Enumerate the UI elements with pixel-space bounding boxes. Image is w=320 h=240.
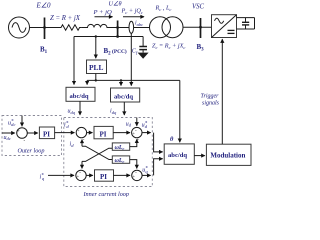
wire i_dq bbox=[123, 102, 125, 115]
svg-text:Rc , Lc: Rc , Lc bbox=[155, 4, 172, 11]
wire S2 to PI2 bbox=[87, 132, 93, 134]
wire PLL input bbox=[95, 37, 97, 59]
svg-text:Z = R + jX: Z = R + jX bbox=[50, 15, 81, 22]
current sensor i_abc bbox=[129, 21, 134, 33]
wire u_d into S3 bbox=[136, 118, 138, 126]
abc/dq U3 bbox=[66, 87, 95, 101]
summing node S4 bbox=[76, 170, 86, 180]
svg-text:signals: signals bbox=[202, 101, 220, 107]
svg-text:Cf: Cf bbox=[132, 48, 138, 54]
svg-text:P + jQ: P + jQ bbox=[93, 9, 112, 16]
bus B1 bbox=[43, 18, 46, 40]
capacitor Cf bbox=[139, 37, 147, 53]
resistor R bbox=[58, 25, 82, 30]
svg-text:id: id bbox=[70, 142, 75, 148]
cross coupling wire id to wLc2 bbox=[82, 146, 112, 159]
svg-text:udq: udq bbox=[68, 109, 76, 115]
svg-text:U∠θ: U∠θ bbox=[109, 1, 122, 8]
wire PI1 to S2 bbox=[55, 132, 75, 134]
wire transformer to VSC bbox=[183, 26, 212, 28]
wire dc top bbox=[237, 17, 255, 19]
svg-text:Trigger: Trigger bbox=[201, 94, 220, 100]
wire dc bottom bbox=[237, 28, 255, 30]
svg-text:ωLc: ωLc bbox=[115, 145, 125, 151]
wire i_d into S2 bbox=[81, 140, 83, 147]
svg-text:PLL: PLL bbox=[89, 63, 103, 72]
wire udc feedback bbox=[2, 132, 15, 134]
svg-text:Modulation: Modulation bbox=[210, 152, 245, 160]
svg-text:idq: idq bbox=[110, 109, 117, 115]
wire PI3 to S5 bbox=[114, 174, 131, 176]
wire i_abc measurement bbox=[130, 33, 132, 85]
wire iq into S4 bbox=[81, 161, 83, 168]
svg-text:PI: PI bbox=[100, 173, 107, 181]
bus B2 bbox=[116, 21, 119, 38]
svg-text:E∠0: E∠0 bbox=[36, 2, 52, 10]
omega Lc block W2 bbox=[112, 156, 129, 164]
wire theta distribution bbox=[87, 79, 180, 81]
svg-text:ωLc: ωLc bbox=[115, 158, 125, 164]
svg-text:Outer loop: Outer loop bbox=[18, 147, 45, 154]
abc/dq U4 bbox=[111, 88, 140, 102]
ground bbox=[138, 53, 149, 59]
svg-text:Inner current loop: Inner current loop bbox=[83, 191, 129, 197]
summing node S2 bbox=[76, 127, 86, 143]
svg-text:udc: udc bbox=[4, 135, 11, 141]
wire PLL output bbox=[95, 74, 97, 81]
wire S1 to PI1 bbox=[27, 132, 38, 134]
pll U2 bbox=[87, 60, 107, 74]
converter U1 bbox=[212, 15, 237, 38]
wire S5 output bbox=[142, 174, 151, 176]
pi controller PI1 bbox=[39, 127, 54, 139]
bus B3 bbox=[199, 18, 202, 38]
arrow Pc flow bbox=[123, 16, 144, 18]
node tap-PLL bbox=[95, 35, 97, 37]
wire B2 to transformer bbox=[112, 27, 150, 29]
svg-text:abc/dq: abc/dq bbox=[168, 152, 187, 159]
measurement tap wire from B2 bbox=[74, 36, 143, 38]
wire dc right end bbox=[254, 18, 256, 29]
ac source G1 bbox=[9, 17, 30, 38]
svg-text:+: + bbox=[77, 127, 80, 132]
svg-text:PI: PI bbox=[100, 130, 107, 138]
node theta-box2 bbox=[120, 79, 122, 81]
svg-text:u*q: u*q bbox=[142, 166, 148, 173]
outer loop dashed box bbox=[2, 116, 62, 156]
wire S3 output bbox=[142, 132, 151, 134]
wire udc ref bbox=[21, 116, 23, 127]
capacitor Cdc bbox=[242, 18, 249, 29]
summing node S5 bbox=[132, 170, 142, 180]
inductor X bbox=[82, 24, 112, 27]
wire trigger signals bbox=[221, 39, 223, 144]
svg-text:VSC: VSC bbox=[192, 4, 205, 11]
pi controller PI2 bbox=[94, 126, 113, 138]
pi controller PI3 bbox=[95, 170, 114, 181]
wire W1 to S3 bbox=[130, 139, 137, 146]
wire theta to abc/dq U4 bbox=[120, 80, 122, 85]
summing node S3 bbox=[132, 127, 142, 141]
inner current loop dashed box bbox=[64, 118, 153, 187]
summing node S1 bbox=[17, 128, 28, 144]
wire S4 to PI3 bbox=[86, 174, 93, 176]
svg-text:u*d: u*d bbox=[142, 122, 148, 129]
svg-text:+: + bbox=[17, 128, 20, 133]
node theta-PLL bbox=[95, 79, 97, 81]
svg-text:Pc + jQc: Pc + jQc bbox=[121, 8, 143, 15]
wire iq ref bbox=[48, 174, 74, 176]
modulation block U6 bbox=[206, 144, 251, 165]
wire u_abc measurement bbox=[73, 37, 75, 85]
transformer T1 bbox=[150, 17, 184, 38]
abc/dq U5 bbox=[164, 144, 194, 164]
wire uq ref to abc/dq U5 bbox=[154, 159, 163, 176]
wire source to B1 bbox=[30, 27, 59, 29]
cross coupling wire iq from wLc1 side bbox=[82, 148, 112, 161]
wire PI2 to S3 bbox=[113, 132, 130, 134]
svg-text:abc/dq: abc/dq bbox=[70, 93, 89, 100]
svg-text:ud: ud bbox=[126, 121, 132, 127]
svg-text:abc/dq: abc/dq bbox=[114, 94, 133, 101]
wire u_dq bbox=[79, 101, 81, 115]
wire theta to abc/dq U3 bbox=[86, 80, 88, 84]
svg-text:PI: PI bbox=[43, 130, 50, 138]
arrow P flow bbox=[95, 16, 113, 18]
svg-text:iabc: iabc bbox=[135, 21, 143, 27]
omega Lc block W1 bbox=[112, 143, 129, 151]
wire U5 to modulation bbox=[194, 155, 205, 157]
wire ud ref to abc/dq U5 bbox=[154, 133, 163, 152]
wire theta to U5 bbox=[179, 80, 181, 142]
wire W2 to S5 bbox=[130, 160, 137, 169]
